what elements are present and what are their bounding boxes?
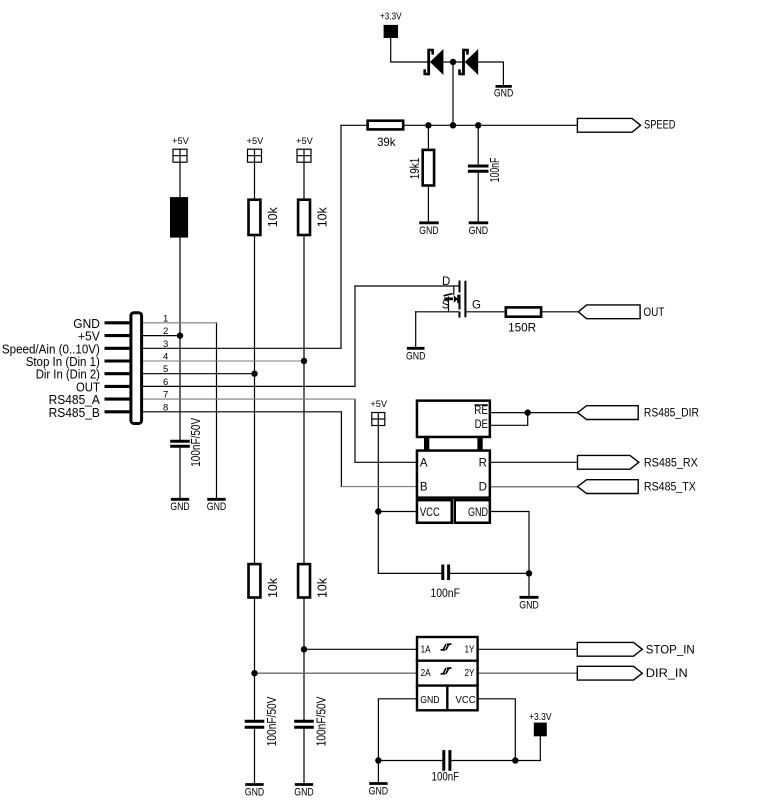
svg-text:3: 3 (163, 339, 168, 350)
svg-text:A: A (420, 457, 428, 469)
svg-text:RS485_TX: RS485_TX (644, 482, 696, 494)
svg-text:D: D (442, 276, 450, 288)
svg-text:OUT: OUT (643, 307, 664, 319)
svg-text:GND: GND (469, 225, 489, 237)
svg-text:2: 2 (163, 326, 168, 337)
svg-text:+3.3V: +3.3V (380, 12, 402, 23)
svg-text:+5V: +5V (247, 136, 264, 147)
svg-text:DIR_IN: DIR_IN (646, 668, 688, 680)
svg-text:10k: 10k (316, 577, 330, 598)
svg-text:100nF/50V: 100nF/50V (189, 417, 203, 466)
svg-text:100nF: 100nF (430, 586, 460, 600)
svg-text:R: R (479, 457, 487, 469)
svg-text:100nF/50V: 100nF/50V (315, 696, 329, 746)
svg-text:150R: 150R (508, 321, 536, 335)
svg-text:10k: 10k (266, 207, 280, 228)
svg-text:GND: GND (420, 694, 440, 706)
svg-text:1Y: 1Y (465, 643, 475, 655)
svg-text:STOP_IN: STOP_IN (646, 644, 695, 656)
svg-text:7: 7 (163, 390, 168, 401)
svg-text:GND: GND (419, 225, 439, 237)
svg-text:GND: GND (406, 350, 426, 362)
svg-text:2Y: 2Y (465, 667, 475, 679)
svg-text:GND: GND (369, 786, 389, 798)
svg-text:1A: 1A (421, 643, 431, 655)
svg-text:6: 6 (163, 377, 168, 388)
svg-text:GND: GND (519, 599, 539, 611)
svg-text:S: S (442, 300, 450, 312)
svg-text:100nF/50V: 100nF/50V (265, 696, 279, 746)
svg-text:GND: GND (245, 786, 265, 798)
svg-text:100nF: 100nF (488, 157, 502, 182)
svg-text:D: D (479, 482, 487, 494)
svg-text:RS485_DIR: RS485_DIR (644, 408, 699, 420)
svg-text:B: B (420, 482, 428, 494)
svg-text:GND: GND (468, 507, 488, 519)
svg-text:GND: GND (494, 88, 514, 100)
svg-text:+5V: +5V (370, 399, 387, 410)
svg-text:+5V: +5V (296, 136, 313, 147)
svg-text:100nF: 100nF (432, 769, 460, 783)
svg-text:5: 5 (163, 364, 168, 375)
svg-text:8: 8 (163, 402, 168, 413)
svg-text:39k: 39k (377, 135, 396, 149)
svg-text:19k1: 19k1 (408, 158, 422, 180)
svg-text:VCC: VCC (420, 507, 440, 519)
svg-text:SPEED: SPEED (644, 120, 676, 132)
svg-text:+3.3V: +3.3V (529, 712, 552, 723)
svg-text:G: G (472, 299, 481, 311)
svg-text:DE: DE (475, 419, 489, 431)
svg-text:4: 4 (163, 352, 168, 363)
svg-text:GND: GND (294, 786, 314, 798)
svg-text:RS485_B: RS485_B (49, 406, 100, 420)
svg-text:GND: GND (207, 501, 227, 513)
svg-text:VCC: VCC (456, 694, 476, 706)
svg-text:10k: 10k (316, 207, 330, 228)
svg-text:+5V: +5V (172, 136, 189, 147)
svg-text:RE: RE (474, 405, 488, 417)
svg-text:RS485_RX: RS485_RX (644, 457, 698, 469)
svg-text:1: 1 (163, 313, 168, 324)
svg-text:10k: 10k (266, 577, 280, 598)
svg-text:GND: GND (170, 501, 190, 513)
svg-text:2A: 2A (421, 667, 431, 679)
